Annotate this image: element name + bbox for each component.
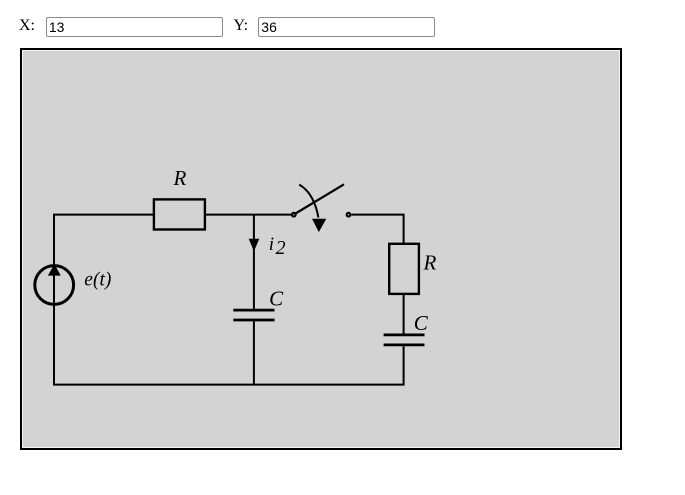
svg-text:C: C xyxy=(414,311,429,335)
svg-text:R: R xyxy=(423,251,437,275)
svg-text:R: R xyxy=(173,166,187,190)
svg-text:i: i xyxy=(269,234,274,255)
svg-text:2: 2 xyxy=(276,237,286,259)
svg-text:e(t): e(t) xyxy=(84,269,111,290)
svg-text:C: C xyxy=(269,287,284,311)
